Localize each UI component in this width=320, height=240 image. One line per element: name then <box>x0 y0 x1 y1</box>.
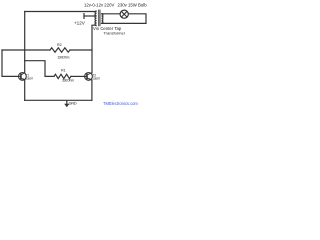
svg-text:TMElectronics.com: TMElectronics.com <box>103 101 138 106</box>
svg-text:13007: 13007 <box>92 77 100 81</box>
svg-text:R2: R2 <box>57 43 62 47</box>
svg-text:230v 15W Bulb: 230v 15W Bulb <box>118 3 148 8</box>
svg-text:Transformer: Transformer <box>103 30 125 35</box>
svg-text:GND: GND <box>69 102 77 106</box>
svg-text:13007: 13007 <box>25 77 33 81</box>
svg-text:330Ohm: 330Ohm <box>62 78 74 82</box>
svg-text:330Ohm: 330Ohm <box>58 56 70 60</box>
svg-text:12v-0-12v 220V: 12v-0-12v 220V <box>84 3 114 8</box>
svg-text:+12V: +12V <box>74 20 86 25</box>
svg-text:R1: R1 <box>61 69 66 73</box>
